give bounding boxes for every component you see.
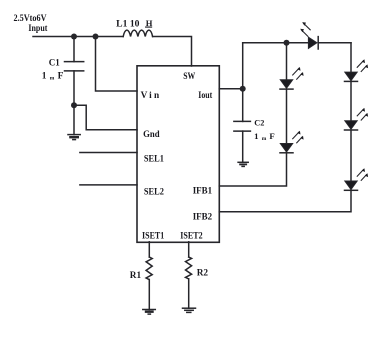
svg-text:Gnd: Gnd: [143, 130, 160, 140]
inductor L1: [123, 30, 152, 36]
wire C2 bottom lead: [242, 131, 244, 162]
wire Iout to C2: [219, 88, 243, 90]
capacitor C2: [234, 121, 251, 131]
wire ISET1 lead: [148, 242, 150, 257]
IC U1 body: [137, 66, 219, 243]
svg-text:SEL2: SEL2: [144, 188, 164, 198]
svg-text:ISET1: ISET1: [142, 232, 165, 242]
node VIN input label: [14, 13, 48, 33]
svg-text:SEL1: SEL1: [144, 154, 164, 164]
svg-text:F: F: [58, 72, 64, 82]
label L1 10 uH: [116, 18, 153, 29]
wire C1 bottom lead: [73, 71, 75, 135]
wire SEL2 stub: [80, 184, 137, 186]
LED D3: [345, 108, 369, 130]
wire rail to SW corner: [153, 37, 192, 67]
wire R2 to ground: [188, 279, 190, 308]
wire right column mid1: [350, 81, 352, 120]
ground R2: [183, 308, 196, 312]
wire middle column mid: [286, 89, 288, 143]
junction dot string 2 tap: [284, 40, 290, 46]
junction dot Iout/C2: [240, 86, 246, 92]
svg-text:R1: R1: [130, 271, 142, 281]
wire C2 vertical riser: [242, 43, 244, 122]
junction dot gnd tap: [71, 102, 77, 108]
svg-text:C1: C1: [49, 58, 60, 68]
wire SEL1 stub: [80, 152, 137, 154]
svg-text:R2: R2: [197, 269, 209, 279]
svg-text:H: H: [146, 18, 153, 28]
svg-text:C2: C2: [254, 118, 264, 127]
label C1 value 1 uF: [42, 72, 64, 82]
ground R1: [143, 310, 156, 315]
resistor R2: [185, 257, 191, 279]
svg-text:F: F: [269, 131, 274, 141]
wire Vin branch: [96, 37, 138, 92]
svg-text:L1 10: L1 10: [116, 18, 140, 28]
svg-text:SW: SW: [183, 72, 196, 82]
LED D6: [280, 131, 304, 153]
LED D5: [280, 67, 304, 89]
wire rail after D1: [318, 42, 351, 44]
wire top rail: [243, 42, 309, 44]
junction dot C1 tap: [71, 34, 77, 40]
svg-text:1: 1: [254, 131, 258, 141]
ground C2: [238, 162, 248, 166]
svg-text:Vin: Vin: [141, 91, 162, 101]
LED D1 (series, pointing right): [300, 22, 318, 49]
wire right column top: [350, 43, 352, 72]
svg-text:1: 1: [42, 72, 47, 82]
svg-text:ISET2: ISET2: [180, 232, 203, 242]
wire R1 to ground: [148, 280, 150, 310]
svg-text:IFB1: IFB1: [193, 187, 213, 197]
junction dot Vin tap: [93, 34, 99, 40]
ground C1: [68, 135, 80, 140]
svg-text:IFB2: IFB2: [193, 213, 213, 223]
wire IFB2 return: [219, 190, 351, 212]
svg-text:m: m: [50, 76, 55, 82]
wire ISET2 lead: [188, 242, 190, 257]
svg-text:Iout: Iout: [198, 91, 213, 101]
resistor R1: [146, 257, 152, 279]
LED D4: [345, 168, 369, 190]
capacitor C1: [65, 62, 84, 71]
wire C1 top lead: [73, 37, 75, 62]
wire middle column top: [286, 43, 288, 80]
label C2 value 1 uF: [254, 131, 275, 142]
wire IFB1 return: [219, 153, 286, 186]
svg-text:m: m: [262, 136, 267, 142]
svg-text:2.5Vto6V: 2.5Vto6V: [14, 13, 47, 23]
svg-text:Input: Input: [28, 23, 47, 33]
wire right column mid2: [350, 130, 352, 181]
LED D2: [345, 59, 369, 81]
wire Gnd step: [74, 105, 137, 130]
wire input rail: [33, 36, 123, 38]
